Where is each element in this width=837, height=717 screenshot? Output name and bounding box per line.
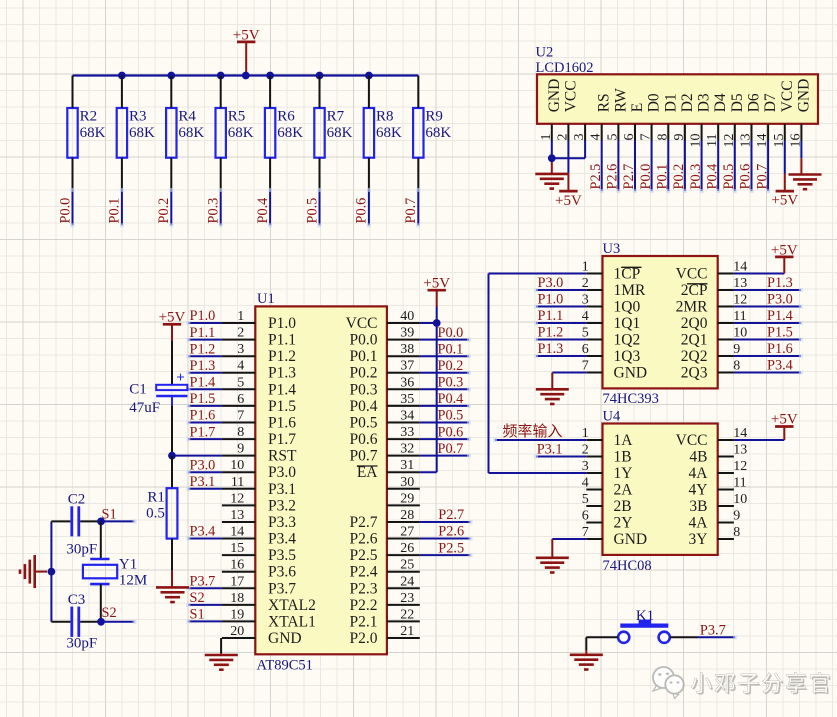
svg-text:5: 5	[237, 375, 244, 390]
svg-text:P1.4: P1.4	[268, 381, 296, 398]
svg-text:26: 26	[400, 541, 414, 556]
wire U1 net P1.6	[186, 421, 222, 425]
U1 pin name XTAL2	[268, 597, 316, 614]
svg-text:P1.3: P1.3	[268, 365, 296, 382]
wire U3 pin1 from U4 1Y (long)	[489, 274, 587, 474]
svg-text:P0.6: P0.6	[438, 424, 464, 440]
svg-text:+5V: +5V	[555, 193, 582, 209]
U2 pin 6 stub	[634, 124, 636, 141]
svg-text:D4: D4	[712, 93, 729, 112]
U4 pin name 3Y	[689, 531, 708, 548]
svg-text:P1.1: P1.1	[268, 332, 296, 349]
net label P3.7 (U1)	[190, 574, 216, 590]
U2 pin name GND (pin 16)	[795, 79, 812, 113]
U2 pin 3 stub	[584, 124, 586, 141]
svg-text:74HC393: 74HC393	[603, 391, 659, 407]
U3 pin 3 stub	[586, 306, 602, 308]
svg-text:R9: R9	[425, 109, 443, 125]
svg-text:40: 40	[400, 309, 414, 324]
U1 pin 22 stub	[387, 620, 420, 622]
resistor R9	[413, 108, 451, 158]
U3 pin number 6	[582, 342, 589, 357]
wire net P0.5	[318, 188, 322, 227]
net label P0.6 (U2)	[738, 164, 754, 190]
U4 pin 10 stub	[718, 505, 734, 507]
U1 pin number 17	[230, 574, 244, 589]
svg-text:P3.7: P3.7	[700, 623, 726, 639]
junction S1	[97, 518, 105, 526]
U4 pin number 5	[582, 492, 589, 507]
U2 pin 8 stub	[667, 124, 669, 141]
svg-text:P1.2: P1.2	[268, 348, 296, 365]
svg-text:0.5: 0.5	[146, 506, 165, 522]
wire U2 pin3 to pin1	[552, 141, 585, 159]
svg-text:P0.1: P0.1	[107, 198, 123, 224]
U1 pin number 30	[400, 475, 414, 490]
net label P0.2 (U2)	[671, 164, 687, 190]
svg-text:GND: GND	[614, 365, 648, 382]
net label P0.7 (U1 right)	[438, 441, 464, 457]
net label P0.0	[57, 198, 73, 224]
svg-text:P0.4: P0.4	[438, 391, 464, 407]
crystal Y1 12M	[83, 557, 147, 589]
junction RST node	[168, 452, 176, 460]
IC U3 part value 74HC393	[603, 391, 659, 407]
svg-text:13: 13	[733, 443, 747, 458]
IC U1 part value AT89C51	[257, 657, 313, 673]
U1 pin 17 stub	[222, 587, 255, 589]
U3 pin number 3	[582, 293, 589, 308]
U4 pin name 3B	[689, 498, 707, 515]
wire net S2	[101, 620, 137, 624]
U1 pin number 10	[230, 458, 244, 473]
wire pin bottom R2	[72, 158, 74, 190]
U1 pin number 15	[230, 541, 244, 556]
svg-text:9: 9	[733, 342, 740, 357]
U2 pin 12 stub	[734, 124, 736, 141]
net label P2.5 (U1 right)	[438, 540, 464, 556]
wire U1 net P1.4	[186, 387, 222, 391]
U4 pin name 4Y	[689, 482, 708, 499]
U1 pin number 25	[400, 558, 414, 573]
net label S2 (crystal)	[102, 605, 117, 621]
wire U4 pin14 VCC	[734, 439, 784, 441]
wire U1 net P2.6	[420, 537, 473, 541]
IC U1 designator	[257, 291, 275, 307]
svg-text:P0.6: P0.6	[354, 198, 370, 224]
net label P0.0 (U2)	[638, 164, 654, 190]
svg-text:C1: C1	[129, 382, 147, 398]
wire U1 net P3.4	[186, 537, 222, 541]
U2 pin 7 stub	[651, 124, 653, 141]
U3 pin 8 stub	[718, 372, 734, 374]
U2 pin name D2 (pin 9)	[679, 93, 696, 112]
svg-text:68K: 68K	[129, 125, 155, 141]
svg-text:D3: D3	[696, 93, 713, 112]
U4 pin 2 stub	[586, 456, 602, 458]
net label P0.6	[354, 198, 370, 224]
net label P0.7 (U2)	[754, 164, 770, 190]
wire pin top R2	[72, 76, 74, 109]
U1 pin 5 stub	[222, 388, 255, 390]
svg-text:10: 10	[230, 458, 244, 473]
U1 pin name P0.0	[350, 332, 378, 349]
U3 pin number 7	[582, 359, 589, 374]
op IC U2 designator	[536, 45, 594, 76]
U1 pin name P3.6	[268, 564, 296, 581]
U2 pin name GND (pin 1)	[546, 79, 563, 113]
U3 pin number 9	[733, 342, 740, 357]
U1 pin name P1.2	[268, 348, 296, 365]
resistor R1 0.5	[146, 488, 177, 538]
svg-text:P3.0: P3.0	[767, 292, 793, 308]
resistor R5	[216, 108, 254, 158]
svg-text:9: 9	[237, 442, 244, 457]
wire pin top R8	[368, 76, 370, 109]
svg-text:P3.5: P3.5	[268, 547, 296, 564]
svg-text:P3.0: P3.0	[538, 275, 564, 291]
svg-text:P3.1: P3.1	[190, 474, 216, 490]
svg-text:P0.3: P0.3	[688, 164, 704, 190]
U1 pin number 13	[230, 508, 244, 523]
U1 pin name P0.6	[350, 431, 378, 448]
svg-text:P2.6: P2.6	[350, 531, 378, 548]
svg-text:GND: GND	[614, 531, 648, 548]
wire U3 net P1.2	[534, 338, 586, 342]
ground U1 GND	[205, 655, 238, 670]
svg-text:38: 38	[400, 342, 414, 357]
svg-text:6: 6	[237, 392, 244, 407]
svg-text:P3.4: P3.4	[268, 531, 296, 548]
U3 pin 12 stub	[718, 306, 734, 308]
svg-text:P3.1: P3.1	[537, 442, 563, 458]
wire pin top R5	[220, 76, 222, 109]
U4 pin number 6	[582, 509, 589, 524]
svg-text:74HC08: 74HC08	[603, 558, 652, 574]
U2 pin number 5	[605, 134, 620, 141]
wire U1 pin40 VCC	[420, 322, 437, 324]
U2 pin number 11	[705, 134, 720, 147]
svg-text:3Y: 3Y	[689, 531, 708, 548]
svg-text:1A: 1A	[614, 432, 634, 449]
U1 pin number 14	[230, 525, 244, 540]
U2 pin 2 stub	[567, 124, 569, 141]
U1 pin name P2.1	[350, 613, 378, 630]
net label P0.1 (U2)	[655, 164, 671, 190]
svg-text:U1: U1	[257, 291, 275, 307]
U3 pin 10 stub	[718, 339, 734, 341]
U2 pin 4 stub	[601, 124, 603, 141]
wire +5V to C1	[171, 341, 173, 385]
power +5V U3	[771, 242, 798, 273]
svg-text:P2.5: P2.5	[350, 547, 378, 564]
U4 pin 4 stub	[586, 489, 602, 491]
net label P3.0 (U3 right)	[767, 292, 793, 308]
svg-text:P3.0: P3.0	[190, 457, 216, 473]
net label S1 (crystal)	[102, 507, 117, 523]
net label P0.1 (U1 right)	[438, 341, 464, 357]
U2 pin number 10	[689, 134, 704, 148]
wire pin bottom R9	[417, 158, 419, 190]
svg-text:9: 9	[733, 509, 740, 524]
net label P0.2	[156, 198, 172, 224]
wire pin bottom R5	[220, 158, 222, 190]
svg-text:AT89C51: AT89C51	[257, 657, 313, 673]
U1 pin number 19	[230, 607, 244, 622]
U1 pin number 7	[237, 409, 244, 424]
U2 pin 5 stub	[617, 124, 619, 141]
svg-text:U3: U3	[603, 241, 621, 257]
svg-text:P0.5: P0.5	[304, 198, 320, 224]
svg-text:R6: R6	[277, 109, 295, 125]
U4 pin name 1A	[614, 432, 634, 449]
svg-text:10: 10	[733, 326, 747, 341]
svg-text:32: 32	[400, 442, 414, 457]
net label P1.0 (U3 left)	[538, 292, 564, 308]
svg-text:2MR: 2MR	[676, 299, 709, 316]
U1 pin name RST	[268, 448, 297, 465]
U1 pin name P0.3	[350, 381, 378, 398]
U4 pin number 2	[582, 443, 589, 458]
U1 pin 34 stub	[387, 422, 420, 424]
svg-text:29: 29	[400, 491, 414, 506]
U2 pin number 16	[788, 134, 803, 148]
U1 pin number 5	[237, 375, 244, 390]
U3 pin 6 stub	[586, 355, 602, 357]
svg-text:11: 11	[733, 476, 746, 491]
svg-text:P0.2: P0.2	[671, 164, 687, 190]
U1 pin name P2.0	[350, 630, 378, 647]
wire U1 net P2.7	[420, 520, 473, 524]
ground U2 left	[535, 174, 568, 189]
U1 pin name P3.5	[268, 547, 296, 564]
U4 pin number 14	[733, 426, 747, 441]
U4 pin number 1	[582, 426, 589, 441]
svg-text:2Y: 2Y	[614, 515, 633, 532]
svg-text:+5V: +5V	[771, 412, 798, 428]
U1 pin name P3.2	[268, 497, 296, 514]
wire U1 net P1.5	[186, 404, 222, 408]
U3 pin name 2Q0	[681, 315, 708, 332]
svg-text:P0.3: P0.3	[206, 198, 222, 224]
svg-text:GND: GND	[546, 79, 563, 113]
U3 pin number 13	[733, 276, 747, 291]
svg-text:Y1: Y1	[119, 557, 137, 573]
wire pin top R9	[417, 76, 419, 109]
wire U1 pin20 GND	[220, 638, 222, 655]
net label P1.4 (U1)	[190, 375, 216, 391]
svg-text:D2: D2	[679, 93, 696, 112]
svg-text:D0: D0	[646, 93, 663, 112]
svg-text:5: 5	[582, 326, 589, 341]
U3 pin 1 stub	[586, 273, 602, 275]
net label P2.7 (U2)	[621, 164, 637, 190]
svg-text:GND: GND	[268, 630, 302, 647]
svg-text:S2: S2	[190, 590, 205, 606]
U1 pin 2 stub	[222, 339, 255, 341]
svg-text:9: 9	[672, 134, 687, 141]
svg-text:2Q0: 2Q0	[681, 315, 708, 332]
junction S2	[97, 618, 105, 626]
wire C2 right to S1 node	[80, 520, 101, 522]
U3 pin number 4	[582, 309, 589, 324]
U4 pin name GND	[614, 531, 648, 548]
U1 pin 6 stub	[222, 405, 255, 407]
net label P1.0 (U1)	[190, 308, 216, 324]
capacitor C3 30pF	[66, 592, 97, 652]
wire U1 net P0.6	[420, 437, 471, 441]
wire RST node to R1	[171, 456, 173, 489]
wire pin top R3	[121, 76, 123, 109]
U2 pin number 7	[639, 134, 654, 141]
svg-text:P2.3: P2.3	[350, 580, 378, 597]
wire C1 to RST node	[171, 396, 173, 456]
U3 pin number 8	[733, 359, 740, 374]
U3 pin name 1CP	[614, 266, 642, 283]
net label P3.0 (U1)	[190, 457, 216, 473]
svg-text:P1.1: P1.1	[538, 308, 564, 324]
svg-text:68K: 68K	[228, 125, 254, 141]
U1 pin number 32	[400, 442, 414, 457]
svg-text:2: 2	[555, 134, 570, 141]
net label P0.7	[403, 198, 419, 224]
svg-text:10: 10	[733, 492, 747, 507]
svg-text:1B: 1B	[614, 449, 632, 466]
ground (crystal, rotated left)	[20, 555, 47, 588]
svg-text:P0.7: P0.7	[350, 448, 378, 465]
U4 pin 13 stub	[718, 456, 734, 458]
wire U1 net P0.1	[420, 354, 471, 358]
IC U1 AT89C51 body	[255, 306, 387, 654]
svg-text:+5V: +5V	[771, 242, 798, 258]
U1 pin number 31	[400, 458, 414, 473]
svg-text:C3: C3	[68, 592, 86, 608]
resistor R2	[67, 108, 105, 158]
net label P0.5	[304, 198, 320, 224]
net label P3.4 (U3 right)	[767, 358, 793, 374]
svg-text:28: 28	[400, 508, 414, 523]
net label P0.3	[206, 198, 222, 224]
wire U2 pin2	[567, 141, 569, 174]
U1 pin 3 stub	[222, 355, 255, 357]
svg-text:XTAL2: XTAL2	[268, 597, 316, 614]
net label P1.6 (U3 right)	[767, 341, 793, 357]
junction U2 pin1/pin3	[548, 154, 556, 162]
U4 pin name 4A	[689, 515, 709, 532]
svg-text:2: 2	[237, 326, 244, 341]
U4 pin number 4	[582, 476, 589, 491]
svg-text:R1: R1	[147, 490, 165, 506]
U4 pin name 4B	[689, 449, 707, 466]
U2 pin name VCC (pin 15)	[779, 80, 796, 112]
svg-text:P0.5: P0.5	[438, 408, 464, 424]
U3 pin number 2	[582, 276, 589, 291]
wire U3 pin14 VCC	[734, 273, 784, 275]
net label P1.1 (U3 left)	[538, 308, 564, 324]
svg-text:6: 6	[622, 134, 637, 141]
svg-text:E: E	[629, 103, 646, 112]
U1 pin number 22	[400, 607, 414, 622]
U3 pin 9 stub	[718, 355, 734, 357]
U4 pin 6 stub	[586, 522, 602, 524]
svg-text:P1.5: P1.5	[767, 325, 793, 341]
U2 pin name D0 (pin 7)	[646, 93, 663, 112]
U1 pin 15 stub	[222, 554, 255, 556]
U1 pin number 23	[400, 591, 414, 606]
wire K1 left to ground	[586, 637, 618, 655]
U1 pin number 39	[400, 326, 414, 341]
U3 pin number 14	[733, 260, 747, 275]
svg-text:3: 3	[237, 342, 244, 357]
wire pin bottom R8	[368, 158, 370, 190]
U1 pin 40 stub	[387, 322, 420, 324]
svg-text:47uF: 47uF	[129, 400, 160, 416]
svg-text:D5: D5	[729, 93, 746, 112]
net label P2.7 (U1 right)	[438, 507, 464, 523]
svg-text:频率输入: 频率输入	[503, 423, 563, 440]
U1 pin number 33	[400, 425, 414, 440]
U2 pin name D4 (pin 11)	[712, 93, 729, 112]
IC U2 LCD1602 body	[537, 74, 818, 124]
svg-text:7: 7	[237, 409, 244, 424]
net label P0.4 (U2)	[704, 164, 720, 190]
svg-text:P2.6: P2.6	[605, 164, 621, 190]
svg-text:P0.5: P0.5	[721, 164, 737, 190]
svg-text:P1.7: P1.7	[190, 424, 216, 440]
svg-text:3: 3	[582, 293, 589, 308]
net label P1.5 (U1)	[190, 391, 216, 407]
U4 pin number 13	[733, 443, 747, 458]
U1 pin name P3.0	[268, 464, 296, 481]
svg-text:S1: S1	[190, 607, 205, 623]
svg-text:P3.7: P3.7	[268, 580, 296, 597]
U1 pin number 12	[230, 491, 244, 506]
svg-text:2A: 2A	[614, 482, 634, 499]
U1 pin name P3.4	[268, 531, 296, 548]
U1 pin 19 stub	[222, 620, 255, 622]
U2 pin number 2	[555, 134, 570, 141]
svg-text:P0.4: P0.4	[350, 398, 378, 415]
net label 频率输入	[503, 423, 563, 440]
svg-text:P1.0: P1.0	[538, 292, 564, 308]
svg-text:68K: 68K	[327, 125, 353, 141]
capacitor C1 47uF (polarized)	[129, 370, 187, 416]
U2 pin number 6	[622, 134, 637, 141]
junction ground node (crystal)	[48, 568, 56, 576]
svg-text:C2: C2	[68, 492, 86, 508]
svg-text:P2.1: P2.1	[350, 613, 378, 630]
svg-text:P1.3: P1.3	[767, 275, 793, 291]
svg-text:13: 13	[230, 508, 244, 523]
svg-text:P1.7: P1.7	[268, 431, 296, 448]
U1 pin 12 stub	[222, 504, 255, 506]
svg-text:30: 30	[400, 475, 414, 490]
svg-text:2Q2: 2Q2	[681, 348, 708, 365]
svg-text:D7: D7	[762, 93, 779, 112]
U1 pin number 9	[237, 442, 244, 457]
U4 pin 5 stub	[586, 505, 602, 507]
U4 pin name 4A	[689, 465, 709, 482]
U1 pin number 18	[230, 591, 244, 606]
svg-text:4Y: 4Y	[689, 482, 708, 499]
U3 pin 13 stub	[718, 289, 734, 291]
U1 pin name P0.5	[350, 415, 378, 432]
svg-text:68K: 68K	[277, 125, 303, 141]
wire R1 to ground	[171, 539, 173, 588]
svg-text:4A: 4A	[689, 465, 709, 482]
wire U3 pin7 GND	[552, 373, 586, 390]
U3 pin name GND	[614, 365, 648, 382]
